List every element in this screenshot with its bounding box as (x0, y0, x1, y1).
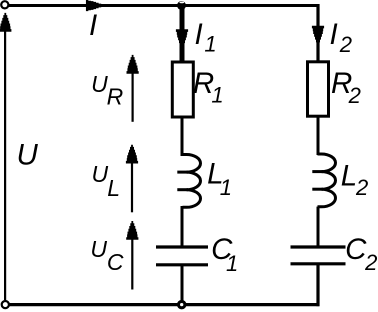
svg-text:1: 1 (204, 32, 216, 57)
current arrow I (top wire, pointing right) (86, 0, 103, 11)
svg-text:U: U (17, 138, 39, 171)
inductor L1 (177, 155, 200, 208)
wire right branch vertical top (316, 4, 319, 62)
resistor R2 (308, 62, 329, 116)
svg-text:I: I (330, 18, 338, 51)
voltage arrow UL (pointing up) (126, 145, 138, 213)
svg-text:U: U (92, 161, 109, 187)
node top junction (177, 1, 186, 10)
terminal bottom-left (2, 301, 9, 308)
node bottom junction (179, 301, 185, 307)
wire branch1 junction to R1 (thick) (180, 6, 185, 63)
svg-text:L: L (341, 159, 357, 192)
wire L1 to C1 (181, 206, 184, 247)
current arrow I1 (pointing down) (176, 29, 188, 48)
wire L2 to C2 (317, 207, 320, 247)
voltage arrow UC (pointing up) (126, 221, 138, 290)
wire C1 to bottom (181, 265, 184, 305)
voltage arrow UR (pointing up) (127, 55, 139, 122)
svg-text:I: I (195, 18, 203, 51)
svg-text:U: U (91, 71, 108, 97)
svg-text:2: 2 (355, 175, 368, 200)
svg-text:1: 1 (226, 251, 238, 276)
wire bottom horizontal (8, 303, 319, 306)
svg-text:I: I (89, 9, 97, 42)
svg-text:R: R (107, 84, 124, 110)
capacitor C1 (156, 247, 208, 265)
svg-text:2: 2 (339, 32, 352, 57)
terminal top-left (1, 1, 8, 8)
wire R1 to L1 (181, 117, 184, 156)
capacitor C2 (291, 247, 346, 264)
current arrow I2 (pointing down) (312, 26, 324, 45)
svg-text:L: L (107, 175, 120, 201)
voltage arrow U (left, pointing up) (0, 13, 11, 300)
svg-text:2: 2 (348, 83, 361, 108)
svg-text:1: 1 (220, 175, 232, 200)
svg-text:U: U (90, 236, 107, 262)
resistor R1 (172, 62, 193, 117)
svg-text:1: 1 (211, 83, 223, 108)
svg-text:C: C (345, 233, 367, 266)
wire right branch vertical bottom (316, 265, 319, 306)
wire R2 to L2 (317, 116, 320, 155)
svg-text:2: 2 (364, 250, 377, 275)
inductor L2 (312, 154, 335, 207)
svg-text:C: C (107, 249, 124, 275)
wire top horizontal (7, 4, 318, 7)
